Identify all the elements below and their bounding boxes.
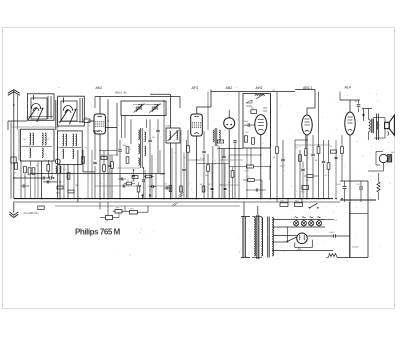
svg-text:2µ: 2µ: [85, 147, 87, 149]
svg-text:AL4: AL4: [345, 86, 351, 90]
svg-text:14: 14: [106, 221, 108, 223]
svg-text:0,2: 0,2: [101, 155, 104, 157]
svg-text:4,3: 4,3: [335, 220, 338, 222]
svg-text:1M: 1M: [315, 160, 318, 162]
svg-text:2µ: 2µ: [149, 190, 151, 192]
svg-text:0,3: 0,3: [325, 175, 328, 177]
svg-text:4µ: 4µ: [36, 165, 38, 167]
svg-text:1W2: 1W2: [280, 201, 284, 203]
svg-text:50µµF: 50µµF: [280, 166, 286, 168]
svg-text:50: 50: [330, 146, 332, 148]
svg-text:0,1µF: 0,1µF: [200, 158, 206, 160]
svg-text:1: 1: [224, 130, 225, 132]
svg-text:1M: 1M: [273, 157, 276, 159]
svg-text:2M: 2M: [216, 146, 219, 148]
svg-text:200: 200: [152, 137, 155, 139]
svg-text:AF3: AF3: [192, 86, 199, 90]
svg-text:50µ: 50µ: [84, 117, 87, 119]
svg-text:AB2: AB2: [226, 86, 233, 90]
svg-text:C74: C74: [272, 90, 275, 92]
svg-text:0,1: 0,1: [136, 185, 138, 187]
svg-text:1W2: 1W2: [116, 208, 120, 210]
svg-text:4,8µF: 4,8µF: [329, 232, 335, 234]
svg-text:0,1: 0,1: [63, 169, 66, 171]
svg-text:0,1: 0,1: [228, 182, 231, 184]
svg-text:±170pF: ±170pF: [165, 126, 173, 128]
svg-text:2V+32B ohm: 2V+32B ohm: [24, 211, 39, 215]
svg-text:Philips 765 M: Philips 765 M: [75, 227, 121, 236]
svg-text:1W2: 1W2: [295, 201, 299, 203]
svg-text:ABC1: ABC1: [303, 86, 312, 90]
svg-text:50C2: 50C2: [337, 184, 342, 186]
svg-text:0,1: 0,1: [109, 172, 112, 174]
svg-text:25: 25: [119, 176, 121, 178]
svg-text:25: 25: [247, 176, 249, 178]
svg-text:500: 500: [200, 184, 203, 186]
svg-text:300: 300: [205, 175, 208, 177]
svg-text:100: 100: [14, 173, 17, 175]
svg-text:0,1: 0,1: [296, 147, 299, 149]
svg-text:AK2: AK2: [96, 86, 103, 90]
svg-text:50: 50: [44, 160, 46, 162]
svg-text:AH2: AH2: [256, 86, 263, 90]
svg-text:100: 100: [23, 139, 26, 141]
svg-text:50: 50: [127, 180, 129, 182]
svg-text:1M: 1M: [75, 185, 78, 187]
svg-text:2W2: 2W2: [130, 209, 134, 211]
svg-text:2x50µF: 2x50µF: [352, 247, 359, 249]
svg-text:50M: 50M: [123, 145, 127, 147]
svg-text:500: 500: [391, 152, 394, 154]
svg-text:0,5: 0,5: [306, 180, 309, 182]
svg-text:10µF: 10µF: [160, 174, 165, 176]
svg-text:KL2: KL2: [357, 184, 360, 186]
svg-text:12: 12: [47, 139, 49, 141]
svg-text:±70: ±70: [164, 184, 167, 186]
